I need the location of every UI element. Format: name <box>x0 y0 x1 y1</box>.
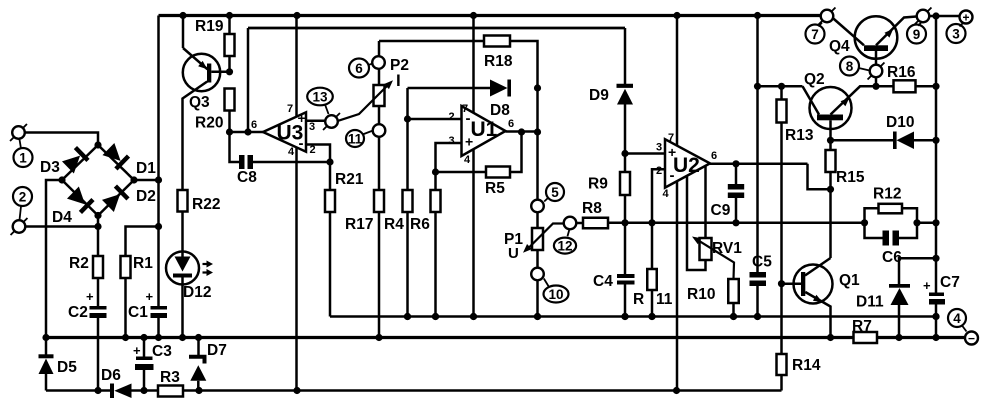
svg-text:RV1: RV1 <box>712 240 742 257</box>
svg-text:6: 6 <box>355 61 363 76</box>
svg-text:D5: D5 <box>57 359 77 376</box>
svg-text:7: 7 <box>668 132 674 144</box>
svg-text:U2: U2 <box>673 154 700 177</box>
svg-text:9: 9 <box>913 27 921 42</box>
svg-text:5: 5 <box>551 185 559 200</box>
svg-text:R7: R7 <box>852 318 872 335</box>
svg-text:4: 4 <box>953 311 961 326</box>
svg-text:2: 2 <box>19 189 27 204</box>
svg-text:D4: D4 <box>52 209 72 226</box>
svg-text:D7: D7 <box>207 342 227 359</box>
svg-text:Q3: Q3 <box>189 94 210 111</box>
svg-text:C3: C3 <box>152 343 172 360</box>
svg-text:D10: D10 <box>886 114 914 131</box>
svg-text:+: + <box>668 144 676 160</box>
svg-text:C2: C2 <box>68 304 88 321</box>
svg-text:R2: R2 <box>69 255 89 272</box>
svg-text:3: 3 <box>309 121 315 133</box>
svg-text:R4: R4 <box>384 216 404 233</box>
svg-text:D6: D6 <box>101 367 121 384</box>
svg-text:4: 4 <box>663 188 670 200</box>
svg-text:3: 3 <box>449 135 455 147</box>
svg-text:8: 8 <box>846 59 854 74</box>
svg-text:D1: D1 <box>136 160 156 177</box>
svg-text:R9: R9 <box>588 176 608 193</box>
svg-text:R10: R10 <box>687 286 715 303</box>
svg-text:R16: R16 <box>887 64 916 81</box>
svg-text:7: 7 <box>811 27 819 42</box>
svg-text:R3: R3 <box>160 369 180 386</box>
svg-text:11: 11 <box>348 131 363 146</box>
svg-text:R15: R15 <box>836 169 865 186</box>
svg-text:R5: R5 <box>485 180 505 197</box>
svg-text:R17: R17 <box>345 216 373 233</box>
svg-text:+: + <box>298 110 306 126</box>
svg-text:D8: D8 <box>490 102 510 119</box>
svg-text:+: + <box>146 289 154 304</box>
svg-text:+: + <box>465 134 473 150</box>
svg-text:D2: D2 <box>136 188 156 205</box>
svg-text:R8: R8 <box>582 200 602 217</box>
svg-text:11: 11 <box>656 291 673 308</box>
svg-text:D11: D11 <box>856 294 884 311</box>
svg-text:Q1: Q1 <box>839 272 860 289</box>
svg-text:6: 6 <box>711 150 717 162</box>
svg-text:U: U <box>508 245 519 262</box>
svg-text:C4: C4 <box>593 273 613 290</box>
svg-text:+: + <box>86 289 94 304</box>
svg-text:1: 1 <box>19 150 27 165</box>
svg-text:7: 7 <box>287 103 293 115</box>
svg-text:R1: R1 <box>133 255 153 272</box>
svg-text:12: 12 <box>557 238 572 253</box>
svg-text:-: - <box>299 135 304 152</box>
svg-text:2: 2 <box>310 144 316 156</box>
svg-text:R18: R18 <box>484 53 513 70</box>
svg-text:R20: R20 <box>195 115 223 132</box>
svg-text:−: − <box>968 332 975 346</box>
svg-text:C8: C8 <box>237 169 257 186</box>
svg-text:6: 6 <box>508 118 514 130</box>
svg-text:4: 4 <box>288 146 295 158</box>
svg-text:R: R <box>633 291 644 308</box>
svg-text:3: 3 <box>656 142 662 154</box>
svg-text:C9: C9 <box>711 202 731 219</box>
svg-text:R21: R21 <box>335 171 364 188</box>
svg-text:2: 2 <box>449 111 455 123</box>
svg-text:+: + <box>962 11 969 25</box>
svg-text:I: I <box>396 71 401 90</box>
svg-text:Q2: Q2 <box>804 71 825 88</box>
svg-text:R22: R22 <box>192 196 220 213</box>
svg-text:C1: C1 <box>128 304 148 321</box>
svg-text:C5: C5 <box>752 254 772 271</box>
svg-text:+: + <box>923 278 931 293</box>
svg-text:R19: R19 <box>195 18 224 35</box>
svg-text:6: 6 <box>251 119 257 131</box>
svg-text:R12: R12 <box>873 186 901 203</box>
svg-text:13: 13 <box>312 89 328 104</box>
svg-text:-: - <box>466 110 471 127</box>
svg-text:D9: D9 <box>589 87 609 104</box>
svg-text:-: - <box>670 167 675 184</box>
svg-text:4: 4 <box>464 154 471 166</box>
svg-text:Q4: Q4 <box>829 38 850 55</box>
svg-text:D12: D12 <box>183 284 211 301</box>
svg-text:2: 2 <box>656 165 662 177</box>
svg-text:U1: U1 <box>471 118 498 141</box>
svg-text:R6: R6 <box>410 216 430 233</box>
svg-text:R13: R13 <box>785 127 814 144</box>
svg-text:C7: C7 <box>940 274 960 291</box>
svg-text:D3: D3 <box>40 159 60 176</box>
svg-text:R14: R14 <box>792 357 821 374</box>
svg-text:+: + <box>133 343 141 358</box>
svg-text:3: 3 <box>952 26 960 41</box>
svg-text:10: 10 <box>548 287 563 302</box>
